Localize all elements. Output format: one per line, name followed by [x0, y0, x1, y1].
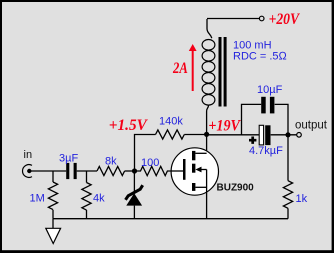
svg-text:3µF: 3µF [59, 153, 78, 165]
wire output line [207, 134, 259, 136]
svg-text:+20V: +20V [269, 10, 301, 28]
wire 8k to node [125, 170, 135, 172]
wire 10uF loop [242, 104, 289, 134]
svg-text:10µF: 10µF [257, 84, 283, 96]
capacitor 10uF [261, 97, 274, 114]
wire 140k to node [184, 134, 206, 136]
wire drain vertical [206, 134, 208, 153]
label 1M [30, 193, 45, 205]
svg-text:4k: 4k [93, 193, 105, 205]
terminal output [297, 133, 302, 138]
resistor 100 [135, 166, 172, 175]
wire 1k to rail [287, 208, 289, 218]
svg-text:140k: 140k [159, 116, 183, 128]
wire 1M tap [52, 171, 54, 182]
label 1k [296, 193, 308, 205]
label +1.5V [109, 116, 148, 134]
node gate bias junction [132, 168, 137, 173]
ground [46, 219, 61, 244]
svg-text:100: 100 [141, 157, 159, 169]
node output junction [285, 132, 290, 137]
svg-text:2A: 2A [172, 59, 188, 77]
wire 1k branch [287, 135, 289, 181]
resistor 8k [97, 166, 125, 175]
svg-text:+1.5V: +1.5V [109, 116, 148, 134]
label BUZ900 [217, 183, 255, 194]
svg-text:BUZ900: BUZ900 [217, 183, 255, 194]
capacitor 3uF [66, 163, 77, 179]
svg-text:1M: 1M [30, 193, 45, 205]
svg-text:output: output [295, 119, 328, 131]
label in [24, 149, 33, 161]
label output [295, 119, 328, 131]
zener diode [126, 171, 143, 219]
inductor core bars [219, 37, 227, 107]
node +19V junction [204, 132, 209, 137]
svg-text:in: in [24, 149, 33, 161]
svg-text:+19V: +19V [208, 116, 241, 134]
label 8k [105, 156, 117, 168]
label 140k [159, 116, 183, 128]
label 4.7kuF [249, 145, 283, 157]
wire 4k to rail [86, 210, 88, 219]
label 4k [93, 193, 105, 205]
svg-text:100 mH: 100 mH [233, 39, 272, 51]
terminal input [23, 165, 32, 178]
wire bottom rail [53, 218, 288, 220]
wire 140k riser [135, 135, 156, 172]
capacitor 4.7kuF (output electrolytic) [249, 125, 271, 145]
inductor L1 100mH [202, 19, 215, 134]
border frame [0, 0, 334, 2]
resistor 140k [156, 130, 185, 139]
wire 1M to rail [52, 210, 54, 219]
terminal +20V [259, 16, 264, 21]
wire top supply [207, 18, 259, 20]
svg-text:RDC = .5Ω: RDC = .5Ω [233, 51, 288, 63]
svg-text:4.7kµF: 4.7kµF [249, 145, 283, 157]
wire cap to output [271, 134, 297, 136]
resistor 1k [283, 181, 292, 209]
current arrow 2A [189, 44, 197, 91]
label +20V [269, 10, 301, 28]
label 100 mH / RDC [233, 39, 288, 62]
svg-text:8k: 8k [105, 156, 117, 168]
resistor 4k [82, 183, 91, 211]
wire cap to 8k [77, 170, 97, 172]
label +19V [208, 116, 241, 134]
label 3uF [59, 153, 78, 165]
wire input line [29, 170, 66, 172]
wire 4k tap [86, 171, 88, 183]
resistor 1M [48, 182, 57, 210]
label 2A [172, 59, 188, 77]
label 100 [141, 157, 159, 169]
label 10uF [257, 84, 283, 96]
svg-text:1k: 1k [296, 193, 308, 205]
transistor Q1 BUZ900 [171, 148, 218, 219]
